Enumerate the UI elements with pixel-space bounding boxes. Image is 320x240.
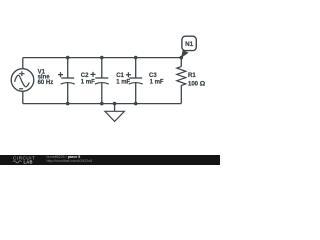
svg-text:1 mF: 1 mF	[81, 79, 95, 85]
svg-text:100 Ω: 100 Ω	[188, 80, 206, 87]
svg-text:LAB: LAB	[24, 159, 33, 164]
svg-text:C1: C1	[116, 73, 124, 79]
svg-text:1 mF: 1 mF	[116, 79, 130, 85]
svg-text:N1: N1	[185, 41, 194, 48]
svg-text:C2: C2	[81, 73, 89, 79]
svg-text:http://circuitlab.com/c2922n8: http://circuitlab.com/c2922n8	[47, 159, 93, 163]
svg-text:1 mF: 1 mF	[150, 79, 164, 85]
svg-text:C3: C3	[149, 73, 157, 79]
svg-text:60 Hz: 60 Hz	[38, 80, 54, 86]
svg-text:R1: R1	[188, 73, 196, 79]
